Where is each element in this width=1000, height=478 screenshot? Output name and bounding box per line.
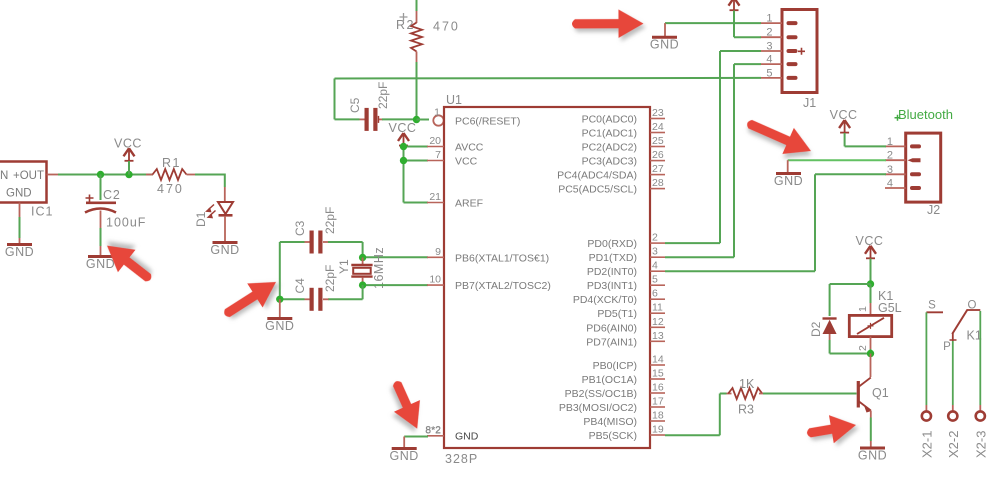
annotation arrow at J2 ground (742, 110, 817, 164)
svg-text:R1: R1 (162, 156, 181, 170)
svg-text:PB7(XTAL2/TOSC2): PB7(XTAL2/TOSC2) (455, 280, 551, 292)
J1 pin 3 stub (760, 50, 782, 52)
ground at Q1 (858, 448, 887, 463)
C5 pin cross (378, 116, 380, 123)
junction XTAL1 (359, 254, 366, 261)
VCC supply (114, 136, 142, 161)
U1 left pin 7 VCC (427, 160, 444, 162)
junction relay pin2 / D2 / Q1 (867, 350, 874, 357)
svg-text:PB6(XTAL1/TOS€1): PB6(XTAL1/TOS€1) (455, 252, 549, 264)
svg-text:GND: GND (390, 449, 419, 463)
svg-text:PD7(AIN1): PD7(AIN1) (586, 336, 637, 348)
wire J1 pin1 to ground (665, 22, 761, 24)
svg-text:GND: GND (858, 449, 887, 463)
J2 pin 2 stub (885, 159, 906, 161)
svg-text:GND: GND (774, 174, 803, 188)
svg-text:GND: GND (455, 431, 479, 443)
resistor R1 (146, 174, 153, 176)
C2 to ground wire (100, 211, 102, 229)
ground at J2 (774, 174, 803, 189)
svg-text:6: 6 (652, 288, 658, 300)
svg-text:+OUT: +OUT (13, 170, 44, 182)
wire J1 pin5 to C5 (long reset net) (335, 77, 762, 80)
U1 left pin 10 PB7(XTAL2/TOSC2) (427, 284, 444, 286)
svg-text:24: 24 (652, 121, 664, 133)
svg-text:14: 14 (652, 354, 664, 366)
D1 cathode to ground (224, 216, 226, 241)
U1 right pin 12 PD6(AIN0) (650, 326, 665, 328)
svg-text:GND: GND (86, 257, 115, 271)
svg-text:3: 3 (652, 246, 658, 258)
svg-text:12: 12 (652, 316, 664, 328)
relay pin2 wire (870, 337, 872, 349)
U1 left pin 21 AREF (427, 202, 444, 204)
U1 right pin 28 PC5(ADC5/SCL) (650, 188, 665, 190)
svg-text:S: S (928, 300, 936, 312)
capacitor C5 (334, 79, 336, 120)
svg-text:3: 3 (766, 41, 772, 53)
svg-text:16: 16 (652, 382, 664, 394)
annotation arrow at J1 ground (572, 9, 644, 38)
IC1 GND pin wire (19, 203, 21, 218)
svg-text:2: 2 (857, 345, 869, 351)
U1 right pin 2 PD0(RXD) (650, 242, 665, 244)
annotation arrow at U1 ground (383, 376, 430, 435)
U1 right pin 6 PD4(XCK/T0) (650, 298, 665, 300)
resistor R3 (720, 393, 727, 395)
svg-text:PC4(ADC4/SDA): PC4(ADC4/SDA) (557, 170, 637, 182)
wire U1 GND pin to ground (404, 436, 428, 438)
svg-text:22pF: 22pF (323, 207, 337, 234)
U1 right pin 15 PB1(OC1A) (650, 378, 665, 380)
svg-text:P: P (943, 341, 951, 353)
ground at C2 (86, 257, 115, 272)
IC1 OUT pin stub (47, 174, 61, 176)
C5 plates (365, 108, 378, 131)
svg-text:R3: R3 (738, 403, 754, 417)
svg-text:17: 17 (652, 396, 664, 408)
ground at D1 (210, 243, 239, 258)
svg-text:PC5(ADC5/SCL): PC5(ADC5/SCL) (558, 184, 637, 196)
annotation arrow at Q1 emitter (805, 411, 859, 447)
svg-text:7: 7 (435, 149, 441, 161)
svg-text:VCC: VCC (114, 136, 142, 150)
svg-text:R2: R2 (396, 18, 415, 32)
LED D1 (207, 202, 233, 218)
svg-text:C4: C4 (293, 278, 307, 294)
Q1 emitter to ground (870, 411, 872, 418)
wire O to X2-3 (979, 311, 981, 405)
VCC supply (389, 121, 417, 146)
svg-text:U1: U1 (446, 93, 462, 107)
pin 1 inversion circle (433, 115, 443, 125)
wire S to X2-1 (925, 312, 927, 405)
junction AVCC (400, 143, 407, 150)
connector J1 (782, 10, 817, 93)
U1 right pin 11 PD5(T1) (650, 312, 665, 314)
wire XTAL1 to pin 9 (363, 256, 428, 258)
svg-text:25: 25 (652, 135, 664, 147)
svg-text:11: 11 (652, 302, 663, 314)
svg-text:18: 18 (652, 410, 664, 422)
capacitor C3 (280, 241, 305, 243)
annotation arrow at C4 junction (217, 270, 283, 327)
svg-text:16MHz: 16MHz (372, 247, 386, 289)
R2 zigzag (411, 23, 422, 52)
U1 GND pin stub (427, 435, 444, 437)
U1 right pin 4 PD2(INT0) (650, 270, 665, 272)
junction XTAL2 (359, 281, 366, 288)
svg-text:2: 2 (887, 150, 893, 162)
U1 right pin 27 PC4(ADC4/SDA) (650, 174, 665, 176)
svg-text:5: 5 (766, 67, 772, 79)
electrolytic capacitor C2 (100, 175, 102, 201)
U1 right pin 26 PC3(ADC3) (650, 160, 665, 162)
svg-text:Q1: Q1 (872, 386, 889, 400)
U1 right pin 19 PB5(SCK) (650, 434, 665, 436)
transistor Q1 (870, 354, 872, 378)
svg-text:22pF: 22pF (376, 82, 390, 109)
svg-text:10: 10 (429, 274, 441, 286)
svg-text:VCC: VCC (389, 121, 417, 135)
wire R1 to D1 (195, 174, 225, 176)
wire VCC rail from IC1 to R1 (58, 174, 153, 176)
svg-text:13: 13 (652, 330, 664, 342)
svg-text:328P: 328P (445, 452, 478, 466)
wire to AREF (404, 202, 429, 204)
svg-text:C3: C3 (293, 220, 307, 236)
svg-text:21: 21 (429, 191, 441, 203)
U1 right pin 25 PC2(ADC2) (650, 146, 665, 148)
svg-text:9: 9 (435, 246, 441, 258)
R1 zigzag (153, 169, 187, 180)
ground at crystal (265, 319, 294, 334)
svg-text:GND: GND (5, 245, 34, 259)
svg-text:22pF: 22pF (323, 265, 337, 292)
svg-text:1: 1 (434, 107, 440, 119)
VCC supply (830, 108, 858, 133)
svg-text:PC3(ADC3): PC3(ADC3) (582, 156, 637, 168)
svg-text:PC1(ADC1): PC1(ADC1) (582, 128, 637, 140)
svg-text:VCC: VCC (830, 108, 858, 122)
svg-text:Bluetooth: Bluetooth (898, 107, 953, 122)
U1 right pin 17 PB3(MOSI/OC2) (650, 406, 665, 408)
J2 pin 3 stub (885, 173, 906, 175)
wire J2 pin3 to PD2 INT0 (815, 173, 886, 175)
U1 right pin 23 PC0(ADC0) (650, 118, 665, 120)
wire R3 to Q1 base (763, 393, 857, 395)
svg-text:J1: J1 (803, 96, 816, 110)
crystal rail to ground (279, 299, 281, 317)
J1 pin 4 stub (760, 63, 782, 65)
svg-text:1: 1 (857, 306, 869, 312)
svg-text:VCC: VCC (856, 234, 884, 248)
svg-text:Y1: Y1 (337, 259, 351, 274)
svg-text:4: 4 (652, 260, 658, 272)
terminal X2-2 (948, 411, 957, 420)
svg-text:2: 2 (766, 27, 772, 39)
svg-text:G5L: G5L (878, 301, 902, 315)
annotation arrow at C2 ground (98, 234, 159, 290)
svg-text:J2: J2 (927, 203, 940, 217)
connector J2 (906, 133, 941, 202)
svg-text:IC1: IC1 (31, 205, 53, 219)
svg-text:PB0(ICP): PB0(ICP) (593, 360, 637, 372)
svg-text:GND: GND (650, 38, 679, 52)
junction at C4 (276, 296, 283, 303)
microcontroller U1 body (444, 107, 650, 448)
svg-text:470: 470 (157, 182, 184, 196)
terminal X2-3 (976, 411, 985, 420)
junction at VCC arrow (125, 171, 132, 178)
D2 bottom wire (829, 334, 831, 340)
wire R2 to pin 1 (416, 62, 418, 120)
U1 left pin 9 PB6(XTAL1/TOS€1) (427, 256, 444, 258)
wire VCC to AVCC / VCC pins (403, 146, 405, 203)
svg-text:AVCC: AVCC (455, 142, 484, 154)
net label Bluetooth (895, 115, 901, 121)
wire J1 pin3 to PD0 RXD (720, 50, 761, 52)
svg-text:PB5(SCK): PB5(SCK) (589, 430, 637, 442)
flyback diode D2 (823, 319, 837, 335)
wire to D2 top (830, 283, 871, 285)
wire P to X2-2 (952, 341, 954, 405)
svg-text:PB3(MOSI/OC2): PB3(MOSI/OC2) (559, 402, 637, 414)
J1 pin 1 stub (760, 22, 782, 24)
svg-text:GND: GND (210, 243, 239, 257)
svg-text:4: 4 (766, 54, 772, 66)
svg-text:1: 1 (766, 13, 772, 25)
C3 plates (310, 231, 323, 254)
junction VCC pin (400, 157, 407, 164)
svg-text:N: N (0, 170, 8, 182)
voltage regulator IC1 (0, 162, 47, 203)
switch contact O (967, 309, 980, 311)
wire Y1 to C4 (362, 285, 364, 299)
svg-text:PB1(OC1A): PB1(OC1A) (582, 374, 637, 386)
svg-text:VCC: VCC (455, 156, 478, 168)
svg-text:3: 3 (887, 164, 893, 176)
ground at IC1 (5, 245, 34, 260)
wire J1 pin4 to PD1 TXD (734, 63, 761, 65)
svg-text:PD6(AIN0): PD6(AIN0) (586, 322, 637, 334)
ground at U1 (390, 449, 419, 464)
svg-text:PB2(SS/OC1B): PB2(SS/OC1B) (565, 388, 637, 400)
svg-text:4: 4 (887, 178, 893, 190)
ground at J1 (650, 37, 679, 52)
U1 right pin 14 PB0(ICP) (650, 364, 665, 366)
svg-text:GND: GND (265, 319, 294, 333)
svg-text:C5: C5 (348, 97, 362, 113)
crystal Y1 16MHz (351, 258, 372, 286)
U1 right pin 5 PD3(INT1) (650, 284, 665, 286)
svg-text:100uF: 100uF (106, 216, 146, 230)
U1 left pin 20 AVCC (427, 146, 444, 148)
wire C3 to XTAL1 (328, 241, 363, 243)
resistor R2 (416, 0, 418, 11)
svg-text:X2-1: X2-1 (919, 431, 934, 458)
J1 pin 2 stub (760, 36, 782, 38)
svg-text:PD5(T1): PD5(T1) (597, 308, 637, 320)
J2 pin 4 stub (885, 187, 906, 189)
svg-text:GND: GND (6, 188, 32, 200)
U1 right pin 13 PD7(AIN1) (650, 340, 665, 342)
svg-text:PD1(TXD): PD1(TXD) (589, 252, 637, 264)
svg-text:PC2(ADC2): PC2(ADC2) (582, 142, 637, 154)
svg-text:19: 19 (652, 424, 664, 436)
junction at pin 1 (413, 116, 420, 123)
svg-text:1K: 1K (739, 377, 755, 391)
svg-text:PC0(ADC0): PC0(ADC0) (582, 114, 637, 126)
U1 right pin 18 PB4(MISO) (650, 420, 665, 422)
J1 pin 5 stub (760, 77, 782, 79)
svg-text:5: 5 (652, 274, 658, 286)
svg-text:O: O (968, 300, 977, 312)
VCC supply (856, 234, 884, 258)
svg-text:PC6(/RESET): PC6(/RESET) (455, 116, 520, 128)
svg-text:20: 20 (429, 135, 441, 147)
svg-text:PD3(INT1): PD3(INT1) (587, 280, 637, 292)
switch contact S (926, 311, 943, 313)
U1 right pin 24 PC1(ADC1) (650, 132, 665, 134)
svg-text:27: 27 (652, 163, 664, 175)
R2 origin cross (400, 13, 408, 21)
svg-text:PD4(XCK/T0): PD4(XCK/T0) (573, 294, 637, 306)
U1 right pin 3 PD1(TXD) (650, 256, 665, 258)
svg-text:PD0(RXD): PD0(RXD) (587, 238, 637, 250)
svg-text:PB4(MISO): PB4(MISO) (583, 416, 637, 428)
wire J2 pin2 to ground (788, 159, 886, 161)
svg-text:D1: D1 (194, 211, 208, 227)
switch arm P to O (952, 310, 967, 335)
svg-text:X2-3: X2-3 (973, 431, 988, 458)
junction relay/diode top (867, 280, 874, 287)
svg-text:1: 1 (887, 136, 893, 148)
svg-text:28: 28 (652, 177, 664, 189)
wire XTAL2 to pin 10 (363, 284, 428, 286)
svg-text:X2-2: X2-2 (946, 431, 961, 458)
svg-text:23: 23 (652, 107, 664, 119)
VCC supply (729, 0, 740, 10)
terminal X2-1 (922, 411, 931, 420)
svg-text:26: 26 (652, 149, 664, 161)
U1 right pin 16 PB2(SS/OC1B) (650, 392, 665, 394)
svg-text:470: 470 (433, 20, 460, 34)
wire C3/C4 left rail (279, 242, 281, 299)
svg-text:PD2(INT0): PD2(INT0) (587, 266, 637, 278)
C4 plates (310, 288, 323, 311)
J2 pin 1 stub (885, 145, 906, 147)
junction at C2 (97, 171, 104, 178)
svg-text:D2: D2 (809, 321, 823, 337)
svg-text:AREF: AREF (455, 198, 483, 210)
svg-text:15: 15 (652, 368, 664, 380)
R3 zigzag (728, 388, 762, 399)
relay coil K1 (870, 284, 872, 303)
svg-text:8*2: 8*2 (425, 425, 441, 437)
svg-text:C2: C2 (103, 188, 121, 202)
wire PB5 to R3 (719, 394, 721, 436)
svg-text:2: 2 (652, 232, 658, 244)
